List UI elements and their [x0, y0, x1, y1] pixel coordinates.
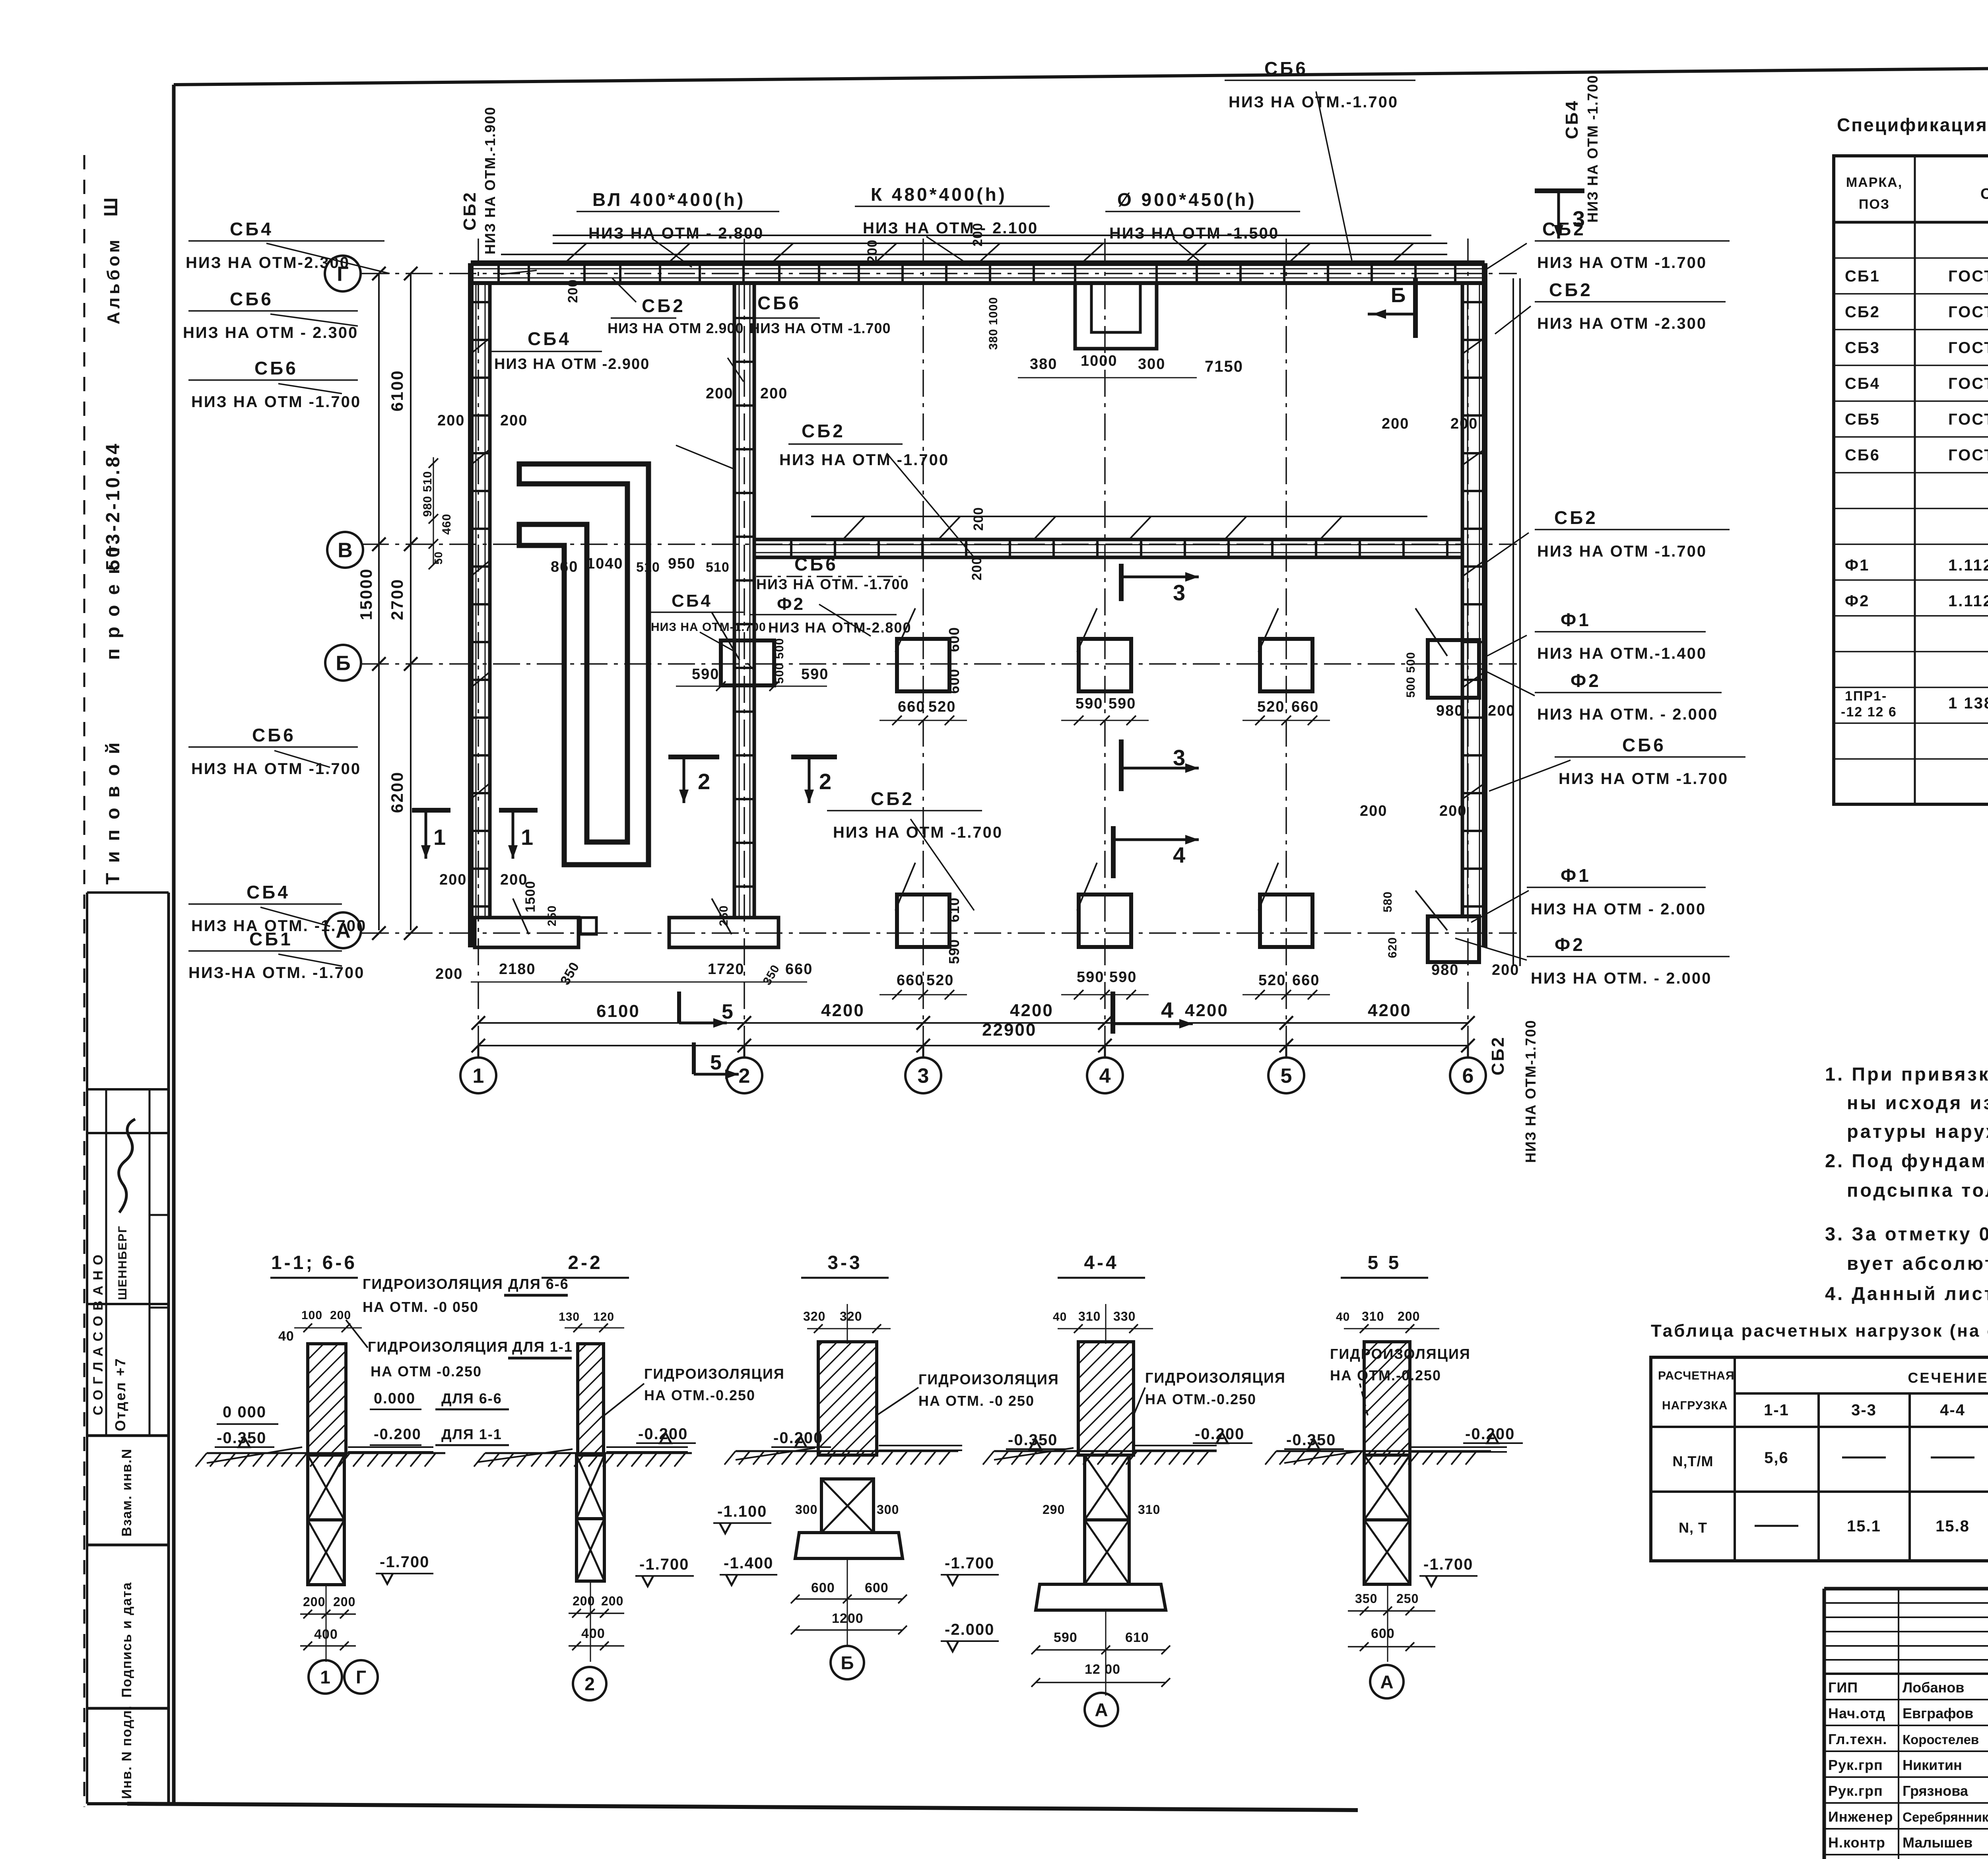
svg-text:СБ2: СБ2 — [642, 295, 685, 316]
svg-text:200: 200 — [1398, 1309, 1420, 1323]
svg-text:Б: Б — [841, 1653, 854, 1673]
svg-text:-0.350: -0.350 — [217, 1429, 266, 1447]
svg-text:22900: 22900 — [982, 1020, 1037, 1040]
svg-text:НАГРУЗКА: НАГРУЗКА — [1662, 1399, 1728, 1412]
svg-text:А: А — [1095, 1700, 1108, 1720]
svg-text:НИЗ НА ОТМ -1.700: НИЗ НА ОТМ -1.700 — [191, 760, 361, 778]
svg-text:200: 200 — [500, 412, 528, 429]
svg-text:СБ6: СБ6 — [1264, 58, 1308, 79]
svg-text:-0.200: -0.200 — [1195, 1425, 1244, 1443]
svg-text:1. При привязке проекта к: 1. При привязке проекта к участку фундам… — [1825, 1063, 1988, 1085]
svg-text:ГИДРОИЗОЛЯЦИЯ: ГИДРОИЗОЛЯЦИЯ — [1330, 1346, 1471, 1362]
svg-text:А: А — [1380, 1672, 1393, 1692]
svg-text:250: 250 — [546, 905, 559, 926]
svg-text:200: 200 — [573, 1594, 595, 1608]
svg-text:660: 660 — [1292, 972, 1320, 989]
svg-text:1: 1 — [320, 1667, 330, 1688]
svg-text:-0.200: -0.200 — [773, 1429, 823, 1447]
svg-text:ДЛЯ 1-1: ДЛЯ 1-1 — [441, 1426, 502, 1442]
svg-text:Ф2: Ф2 — [1571, 670, 1601, 691]
svg-text:380: 380 — [1030, 356, 1057, 373]
svg-text:510: 510 — [636, 560, 660, 575]
svg-text:1: 1 — [521, 825, 533, 850]
svg-text:200: 200 — [601, 1594, 623, 1608]
svg-text:НА ОТМ. -0 250: НА ОТМ. -0 250 — [918, 1393, 1035, 1409]
svg-text:2: 2 — [698, 769, 710, 794]
svg-text:250: 250 — [717, 905, 730, 926]
svg-text:Ф1: Ф1 — [1561, 609, 1591, 630]
svg-text:ГОСТ 13579-78: ГОСТ 13579-78 — [1948, 375, 1988, 392]
svg-text:320: 320 — [803, 1309, 825, 1323]
svg-text:Грязнова: Грязнова — [1903, 1783, 1969, 1799]
svg-text:590: 590 — [801, 666, 829, 683]
svg-text:Спецификация элементов к ма: Спецификация элементов к маркировочной с… — [1837, 114, 1988, 135]
svg-text:СБ6: СБ6 — [252, 725, 296, 745]
svg-text:15.1: 15.1 — [1847, 1517, 1881, 1535]
svg-text:2: 2 — [584, 1674, 595, 1694]
svg-text:860: 860 — [551, 559, 578, 575]
svg-text:2: 2 — [739, 1065, 750, 1088]
svg-text:4200: 4200 — [1010, 1001, 1054, 1020]
svg-text:300: 300 — [795, 1502, 817, 1517]
svg-text:590: 590 — [1054, 1630, 1077, 1645]
svg-text:НА ОТМ -0.250: НА ОТМ -0.250 — [371, 1363, 482, 1380]
svg-text:НИЗ НА ОТМ -1.700: НИЗ НА ОТМ -1.700 — [1537, 254, 1707, 272]
svg-text:Отдел +7: Отдел +7 — [112, 1357, 128, 1431]
svg-text:320: 320 — [840, 1309, 862, 1323]
svg-text:1720: 1720 — [708, 961, 745, 978]
svg-text:ГИДРОИЗОЛЯЦИЯ: ГИДРОИЗОЛЯЦИЯ — [1145, 1370, 1286, 1386]
svg-text:500 500: 500 500 — [1404, 652, 1417, 698]
svg-text:200: 200 — [437, 412, 465, 429]
svg-text:ДЛЯ 6-6: ДЛЯ 6-6 — [441, 1390, 502, 1407]
svg-text:Ф2: Ф2 — [777, 594, 805, 614]
svg-text:3: 3 — [918, 1065, 929, 1088]
svg-text:600: 600 — [946, 627, 962, 652]
svg-text:вует абсолютной отметке: вует абсолютной отметке — [1847, 1253, 1988, 1274]
svg-text:ГИДРОИЗОЛЯЦИЯ: ГИДРОИЗОЛЯЦИЯ — [644, 1366, 785, 1382]
svg-text:С О Г Л А С О В А Н О: С О Г Л А С О В А Н О — [91, 1254, 106, 1415]
svg-text:980: 980 — [1436, 702, 1464, 719]
svg-text:7150: 7150 — [1205, 358, 1243, 375]
svg-text:1: 1 — [433, 825, 446, 850]
svg-text:2-2: 2-2 — [568, 1252, 602, 1273]
svg-text:ГИДРОИЗОЛЯЦИЯ: ГИДРОИЗОЛЯЦИЯ — [368, 1339, 509, 1355]
svg-text:ны исходя из конкретных гр: ны исходя из конкретных грунтовых услови… — [1847, 1092, 1988, 1113]
svg-text:НИЗ НА ОТМ-1.700: НИЗ НА ОТМ-1.700 — [651, 621, 766, 634]
svg-text:520: 520 — [1258, 972, 1286, 989]
svg-text:520: 520 — [928, 699, 956, 715]
svg-text:40: 40 — [1053, 1310, 1067, 1323]
svg-text:590: 590 — [1077, 969, 1104, 986]
svg-text:МАРКА,: МАРКА, — [1846, 175, 1903, 190]
svg-text:НИЗ НА ОТМ -1.700: НИЗ НА ОТМ -1.700 — [191, 393, 361, 411]
svg-text:600: 600 — [946, 669, 962, 694]
svg-text:4: 4 — [1161, 997, 1173, 1023]
svg-text:350: 350 — [557, 959, 582, 988]
svg-text:Гл.техн.: Гл.техн. — [1828, 1731, 1887, 1747]
svg-text:200: 200 — [303, 1595, 325, 1609]
svg-text:НА ОТМ.-0.250: НА ОТМ.-0.250 — [644, 1387, 755, 1403]
svg-text:200: 200 — [760, 385, 788, 402]
svg-text:НИЗ НА ОТМ-2.300: НИЗ НА ОТМ-2.300 — [186, 254, 350, 272]
svg-text:ГИП: ГИП — [1828, 1679, 1858, 1696]
svg-text:330: 330 — [1113, 1309, 1136, 1323]
svg-text:5,6: 5,6 — [1764, 1449, 1789, 1467]
svg-text:СБ4: СБ4 — [1562, 99, 1582, 139]
svg-text:Н.контр: Н.контр — [1828, 1834, 1885, 1851]
svg-text:НИЗ НА ОТМ-2.800: НИЗ НА ОТМ-2.800 — [768, 619, 911, 636]
svg-text:Серебрянников: Серебрянников — [1903, 1810, 1988, 1824]
svg-text:ратуры наружного воздух: ратуры наружного воздуха — [1847, 1121, 1988, 1142]
svg-text:ГОСТ 13579-78: ГОСТ 13579-78 — [1948, 268, 1988, 285]
svg-text:НИЗ НА ОТМ - 2.100: НИЗ НА ОТМ - 2.100 — [863, 219, 1038, 237]
svg-text:Ф1: Ф1 — [1845, 557, 1870, 574]
svg-text:-0.350: -0.350 — [1286, 1431, 1336, 1449]
svg-text:660: 660 — [897, 972, 924, 989]
svg-text:Никитин: Никитин — [1903, 1757, 1962, 1773]
svg-text:Взам. инв.N: Взам. инв.N — [119, 1448, 134, 1537]
svg-text:НА ОТМ. -0 050: НА ОТМ. -0 050 — [363, 1299, 479, 1315]
svg-text:НИЗ НА ОТМ. - 2.000: НИЗ НА ОТМ. - 2.000 — [1537, 706, 1718, 723]
svg-text:СБ1: СБ1 — [1845, 268, 1880, 285]
svg-text:Инв. N подл.: Инв. N подл. — [119, 1705, 134, 1799]
svg-text:3. За отметку 0.000 прин: 3. За отметку 0.000 принята отметка чист… — [1825, 1223, 1988, 1244]
svg-text:СБ2: СБ2 — [1542, 219, 1586, 239]
svg-text:СЕЧЕНИЕ: СЕЧЕНИЕ — [1908, 1370, 1988, 1386]
svg-text:Б: Б — [336, 652, 350, 675]
svg-text:6: 6 — [1462, 1065, 1474, 1088]
svg-text:-1.700: -1.700 — [380, 1553, 429, 1571]
svg-text:Альбом: Альбом — [104, 237, 123, 324]
svg-text:200: 200 — [1382, 415, 1409, 432]
svg-text:-2.000: -2.000 — [945, 1621, 994, 1638]
svg-text:120: 120 — [593, 1310, 614, 1323]
svg-text:1.112-5 ВЫП. 2: 1.112-5 ВЫП. 2 — [1948, 557, 1988, 574]
svg-text:ГИДРОИЗОЛЯЦИЯ: ГИДРОИЗОЛЯЦИЯ — [918, 1371, 1059, 1387]
svg-text:СБ6: СБ6 — [230, 289, 274, 309]
svg-text:980 510: 980 510 — [421, 471, 434, 517]
svg-text:НИЗ НА ОТМ -2.900: НИЗ НА ОТМ -2.900 — [494, 356, 650, 373]
svg-text:ПОЗ: ПОЗ — [1859, 197, 1890, 212]
svg-text:200: 200 — [565, 279, 580, 303]
svg-text:200: 200 — [1450, 415, 1478, 432]
svg-text:НИЗ НА ОТМ.-1.700: НИЗ НА ОТМ.-1.700 — [1229, 93, 1398, 111]
svg-text:2: 2 — [819, 769, 831, 794]
svg-text:Подпись и дата: Подпись и дата — [119, 1582, 134, 1698]
svg-text:-1.700: -1.700 — [639, 1556, 689, 1573]
svg-text:N,Т/М: N,Т/М — [1673, 1453, 1714, 1469]
svg-text:590: 590 — [1109, 695, 1136, 712]
svg-text:250: 250 — [1396, 1591, 1419, 1606]
svg-text:3: 3 — [1173, 580, 1185, 605]
svg-text:1-1: 1-1 — [1764, 1401, 1789, 1419]
svg-text:НИЗ НА ОТМ -1.700: НИЗ НА ОТМ -1.700 — [833, 824, 1003, 841]
svg-text:2180: 2180 — [499, 961, 536, 978]
svg-text:200: 200 — [435, 966, 463, 982]
svg-text:НИЗ НА ОТМ -1.700: НИЗ НА ОТМ -1.700 — [779, 451, 949, 469]
svg-text:-1.700: -1.700 — [1423, 1556, 1473, 1573]
svg-text:130: 130 — [559, 1310, 580, 1323]
svg-text:3-3: 3-3 — [1851, 1401, 1877, 1419]
svg-text:-0.200: -0.200 — [374, 1426, 421, 1443]
svg-text:400: 400 — [581, 1626, 605, 1641]
svg-text:15000: 15000 — [357, 568, 375, 620]
svg-text:СБ6: СБ6 — [1845, 446, 1880, 464]
svg-text:НА ОТМ.-0.250: НА ОТМ.-0.250 — [1330, 1367, 1441, 1384]
svg-text:1ПР1-: 1ПР1- — [1845, 689, 1887, 704]
svg-text:НИЗ-НА ОТМ. -1.700: НИЗ-НА ОТМ. -1.700 — [188, 964, 365, 982]
svg-text:5: 5 — [722, 1000, 733, 1023]
svg-text:6100: 6100 — [596, 1001, 640, 1021]
svg-text:СБ4: СБ4 — [528, 328, 571, 349]
svg-text:В: В — [338, 539, 353, 562]
svg-text:2. Под фундаменты, для вырав: 2. Под фундаменты, для выравнивания осно… — [1825, 1150, 1988, 1171]
svg-text:4. Данный лист рассматрив: 4. Данный лист рассматривать совместно с… — [1825, 1283, 1988, 1304]
svg-text:660: 660 — [1291, 699, 1319, 715]
svg-text:950: 950 — [668, 555, 695, 572]
svg-text:НИЗ НА ОТМ -1.700: НИЗ НА ОТМ -1.700 — [1584, 75, 1601, 223]
svg-text:310: 310 — [1362, 1309, 1384, 1323]
svg-text:3: 3 — [1173, 745, 1185, 770]
svg-text:590: 590 — [946, 939, 962, 964]
svg-text:1.112-5 ВЫП. 2: 1.112-5 ВЫП. 2 — [1948, 592, 1988, 610]
svg-text:3-3: 3-3 — [827, 1252, 862, 1273]
svg-text:Евграфов: Евграфов — [1903, 1705, 1973, 1721]
svg-text:310: 310 — [1138, 1502, 1160, 1517]
svg-text:Ф2: Ф2 — [1845, 592, 1870, 610]
svg-text:СБ5: СБ5 — [1845, 411, 1880, 428]
svg-text:460: 460 — [440, 514, 453, 535]
svg-text:ОБОЗНАЧЕНИЕ: ОБОЗНАЧЕНИЕ — [1980, 186, 1988, 202]
svg-text:НИЗ НА ОТМ. - 2.000: НИЗ НА ОТМ. - 2.000 — [1531, 970, 1712, 987]
svg-text:5 5: 5 5 — [1368, 1252, 1402, 1273]
svg-text:ГИДРОИЗОЛЯЦИЯ: ГИДРОИЗОЛЯЦИЯ — [363, 1276, 503, 1292]
svg-text:ГОСТ 13579-78: ГОСТ 13579-78 — [1948, 446, 1988, 464]
svg-text:503-2-10.84: 503-2-10.84 — [103, 441, 124, 571]
svg-text:СБ4: СБ4 — [1845, 375, 1880, 392]
svg-text:590: 590 — [692, 666, 719, 683]
svg-text:-12 12 6: -12 12 6 — [1841, 704, 1897, 720]
svg-text:Ø 900*450(h): Ø 900*450(h) — [1117, 189, 1257, 210]
svg-text:СБ6: СБ6 — [1622, 735, 1666, 755]
svg-text:НИЗ НА ОТМ -1.500: НИЗ НА ОТМ -1.500 — [1109, 225, 1279, 242]
svg-text:-0.350: -0.350 — [1008, 1431, 1058, 1449]
svg-text:N, Т: N, Т — [1679, 1519, 1707, 1536]
svg-text:СБ6: СБ6 — [757, 293, 801, 313]
svg-text:Ф2: Ф2 — [1555, 934, 1585, 955]
svg-text:РАСЧЕТНАЯ: РАСЧЕТНАЯ — [1658, 1369, 1735, 1382]
svg-text:350: 350 — [760, 962, 782, 987]
svg-text:Б: Б — [1391, 284, 1406, 307]
svg-text:350: 350 — [1355, 1591, 1377, 1606]
svg-text:СБ4: СБ4 — [230, 219, 274, 239]
svg-text:НИЗ НА ОТМ - 2.000: НИЗ НА ОТМ - 2.000 — [1531, 900, 1706, 918]
svg-text:НА ОТМ.-0.250: НА ОТМ.-0.250 — [1145, 1391, 1256, 1407]
svg-text:Нач.отд: Нач.отд — [1828, 1705, 1885, 1721]
svg-text:4: 4 — [1099, 1065, 1111, 1088]
svg-text:200: 200 — [333, 1595, 355, 1609]
svg-text:200: 200 — [706, 385, 733, 402]
svg-text:СБ2: СБ2 — [802, 421, 845, 441]
svg-text:40: 40 — [1336, 1310, 1350, 1323]
svg-text:Ф1: Ф1 — [1561, 865, 1591, 886]
svg-text:300: 300 — [1138, 356, 1165, 373]
svg-text:200: 200 — [1439, 803, 1467, 819]
svg-text:ГОСТ 13579-78: ГОСТ 13579-78 — [1948, 411, 1988, 428]
svg-text:0.000: 0.000 — [374, 1390, 415, 1407]
svg-text:НИЗ НА ОТМ -1.700: НИЗ НА ОТМ -1.700 — [749, 320, 891, 336]
svg-text:4: 4 — [1173, 842, 1185, 867]
svg-text:СБ2: СБ2 — [1845, 303, 1880, 321]
svg-text:600: 600 — [1371, 1626, 1395, 1641]
svg-text:1500: 1500 — [523, 881, 538, 912]
svg-text:200: 200 — [330, 1309, 351, 1322]
svg-text:620: 620 — [1386, 937, 1399, 958]
svg-text:600: 600 — [811, 1580, 835, 1595]
svg-text:610: 610 — [946, 897, 962, 922]
svg-text:510: 510 — [706, 560, 730, 575]
svg-text:310: 310 — [1078, 1309, 1101, 1323]
svg-text:1 138-10 ВЫП 1: 1 138-10 ВЫП 1 — [1948, 695, 1988, 712]
svg-text:-1.100: -1.100 — [717, 1503, 767, 1520]
svg-text:4-4: 4-4 — [1940, 1401, 1965, 1419]
svg-text:Таблица расчетных нагрузок (: Таблица расчетных нагрузок (на отм. 0.00… — [1651, 1321, 1988, 1341]
svg-text:380 1000: 380 1000 — [987, 297, 1000, 350]
svg-text:500 500: 500 500 — [773, 638, 786, 684]
svg-text:Т и п о в о й: Т и п о в о й — [103, 740, 124, 885]
svg-text:СБ1: СБ1 — [249, 929, 293, 949]
svg-text:Г: Г — [356, 1667, 366, 1688]
svg-text:290: 290 — [1043, 1502, 1065, 1517]
svg-text:980: 980 — [1431, 962, 1459, 978]
svg-text:520: 520 — [926, 972, 954, 989]
svg-text:СБ6: СБ6 — [794, 554, 838, 574]
svg-text:СБ3: СБ3 — [1845, 339, 1880, 357]
svg-text:2700: 2700 — [388, 578, 406, 620]
svg-text:К 480*400(h): К 480*400(h) — [871, 184, 1007, 205]
svg-text:5: 5 — [1281, 1065, 1292, 1088]
svg-text:СБ2: СБ2 — [1549, 279, 1593, 300]
svg-text:1: 1 — [473, 1065, 484, 1088]
svg-text:НИЗ НА ОТМ.-1.900: НИЗ НА ОТМ.-1.900 — [482, 107, 498, 254]
svg-text:-1.700: -1.700 — [945, 1554, 994, 1572]
svg-text:300: 300 — [877, 1502, 899, 1517]
svg-text:580: 580 — [1381, 891, 1394, 912]
svg-text:ГОСТ 13579-78: ГОСТ 13579-78 — [1948, 339, 1988, 357]
svg-text:НИЗ НА ОТМ - 2.300: НИЗ НА ОТМ - 2.300 — [183, 324, 358, 342]
svg-text:СБ2: СБ2 — [871, 788, 914, 809]
svg-text:НИЗ НА ОТМ 2.900: НИЗ НА ОТМ 2.900 — [608, 320, 744, 336]
svg-text:200: 200 — [969, 557, 984, 580]
svg-text:ВЛ 400*400(h): ВЛ 400*400(h) — [592, 189, 745, 210]
svg-text:НИЗ НА ОТМ. -1.700: НИЗ НА ОТМ. -1.700 — [756, 576, 909, 592]
svg-text:12 00: 12 00 — [1085, 1662, 1120, 1677]
svg-text:5: 5 — [710, 1051, 722, 1074]
svg-text:Ш: Ш — [101, 198, 122, 217]
svg-text:подсыпка толщиной 5см: подсыпка толщиной 5см — [1847, 1180, 1988, 1201]
svg-text:ГОСТ 13579-78: ГОСТ 13579-78 — [1948, 303, 1988, 321]
svg-text:1000: 1000 — [1081, 353, 1118, 369]
svg-text:НИЗ НА ОТМ -2.300: НИЗ НА ОТМ -2.300 — [1537, 315, 1707, 332]
svg-text:СБ6: СБ6 — [254, 358, 298, 378]
svg-text:4200: 4200 — [1185, 1001, 1229, 1020]
svg-text:520: 520 — [1257, 699, 1285, 715]
svg-text:15.8: 15.8 — [1936, 1517, 1970, 1535]
svg-text:4200: 4200 — [821, 1001, 865, 1020]
svg-text:200: 200 — [439, 871, 467, 888]
svg-text:4-4: 4-4 — [1084, 1252, 1118, 1273]
svg-text:200: 200 — [971, 507, 986, 531]
svg-text:СБ4: СБ4 — [247, 882, 290, 902]
svg-text:200: 200 — [865, 239, 880, 263]
svg-text:660: 660 — [785, 961, 813, 978]
svg-text:200: 200 — [1488, 702, 1515, 719]
svg-text:-0.200: -0.200 — [638, 1425, 688, 1443]
svg-text:590: 590 — [1076, 695, 1103, 712]
svg-text:НИЗ НА ОТМ -1.700: НИЗ НА ОТМ -1.700 — [1559, 770, 1728, 788]
svg-text:660: 660 — [898, 699, 925, 715]
svg-text:590: 590 — [1109, 969, 1137, 986]
svg-text:Рук.грп: Рук.грп — [1828, 1757, 1883, 1773]
svg-text:НИЗ НА ОТМ - 2.800: НИЗ НА ОТМ - 2.800 — [588, 225, 764, 242]
svg-text:6200: 6200 — [388, 771, 406, 813]
svg-text:Лобанов: Лобанов — [1903, 1679, 1964, 1696]
svg-text:ШЕННБЕРГ: ШЕННБЕРГ — [116, 1225, 129, 1300]
svg-text:Малышев: Малышев — [1903, 1834, 1972, 1851]
svg-text:СБ4: СБ4 — [672, 591, 712, 611]
svg-text:ДЛЯ 1-1: ДЛЯ 1-1 — [512, 1339, 573, 1355]
svg-text:Инженер: Инженер — [1828, 1809, 1893, 1825]
svg-text:-0.200: -0.200 — [1465, 1425, 1515, 1443]
svg-text:100: 100 — [301, 1309, 322, 1322]
svg-text:40: 40 — [278, 1329, 294, 1344]
svg-text:4200: 4200 — [1368, 1001, 1411, 1020]
svg-text:610: 610 — [1125, 1630, 1149, 1645]
svg-text:СБ2: СБ2 — [1554, 507, 1598, 528]
svg-text:1040: 1040 — [586, 555, 623, 572]
svg-text:Коростелев: Коростелев — [1903, 1732, 1979, 1747]
svg-text:6100: 6100 — [388, 370, 406, 411]
svg-text:СБ2: СБ2 — [1488, 1036, 1508, 1075]
svg-text:50: 50 — [432, 551, 445, 565]
svg-text:Рук.грп: Рук.грп — [1828, 1783, 1883, 1799]
svg-text:1-1; 6-6: 1-1; 6-6 — [271, 1252, 357, 1273]
svg-text:200: 200 — [1492, 962, 1519, 978]
svg-text:0 000: 0 000 — [223, 1403, 266, 1421]
svg-text:600: 600 — [865, 1580, 889, 1595]
svg-text:НИЗ НА ОТМ.-1.400: НИЗ НА ОТМ.-1.400 — [1537, 645, 1707, 662]
svg-text:-1.400: -1.400 — [724, 1554, 773, 1572]
svg-text:НИЗ НА ОТМ-1.700: НИЗ НА ОТМ-1.700 — [1522, 1020, 1539, 1163]
svg-text:СБ2: СБ2 — [460, 191, 480, 231]
svg-text:НИЗ НА ОТМ -1.700: НИЗ НА ОТМ -1.700 — [1537, 543, 1707, 560]
svg-text:200: 200 — [1360, 803, 1387, 819]
